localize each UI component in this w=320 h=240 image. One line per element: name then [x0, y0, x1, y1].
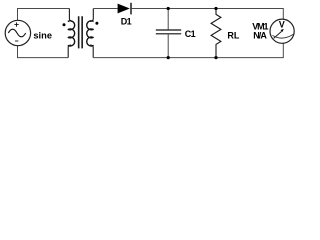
voltmeter VM1 circle — [270, 19, 294, 43]
junction dot RL bottom — [214, 56, 217, 59]
junction dot RL top — [214, 7, 217, 10]
svg-text:D1: D1 — [121, 17, 132, 27]
sine wave — [8, 29, 25, 37]
wire secondary top — [93, 8, 117, 10]
transformer core — [79, 16, 83, 48]
voltmeter needle — [274, 31, 282, 38]
transformer TR1 primary top lead — [69, 9, 72, 22]
resistor RL zigzag — [211, 9, 221, 58]
voltage source VS1 circle — [5, 20, 30, 45]
transformer polarity dot secondary — [95, 22, 98, 25]
wire left loop bottom — [18, 46, 69, 58]
plus sign — [14, 22, 18, 26]
wire bottom secondary — [93, 43, 283, 57]
transformer TR1 secondary winding — [87, 21, 94, 46]
capacitor C1 top lead — [167, 9, 169, 30]
diode D1 triangle — [118, 4, 130, 14]
wire left loop top — [18, 9, 70, 21]
voltmeter scale arc — [272, 34, 294, 38]
transformer polarity dot primary — [63, 23, 66, 26]
capacitor C1 bottom lead — [167, 35, 169, 58]
capacitor C1 plates — [156, 30, 181, 34]
minus sign — [15, 40, 18, 42]
transformer TR1 primary bottom lead — [68, 45, 71, 58]
wire top to voltmeter — [132, 9, 284, 20]
svg-text:N/A: N/A — [253, 31, 267, 41]
voltmeter needle arrowhead — [281, 29, 284, 32]
junction dot C1 top — [167, 7, 170, 10]
svg-text:RL: RL — [227, 31, 239, 41]
transformer TR1 primary winding — [68, 21, 75, 46]
svg-text:C1: C1 — [185, 29, 196, 39]
junction dot C1 bottom — [167, 56, 170, 59]
svg-text:sine: sine — [33, 31, 52, 41]
diode D1 cathode bar — [130, 3, 132, 15]
transformer TR1 secondary bottom lead — [90, 45, 93, 58]
svg-text:V: V — [279, 20, 285, 30]
transformer TR1 secondary top lead — [90, 9, 93, 22]
